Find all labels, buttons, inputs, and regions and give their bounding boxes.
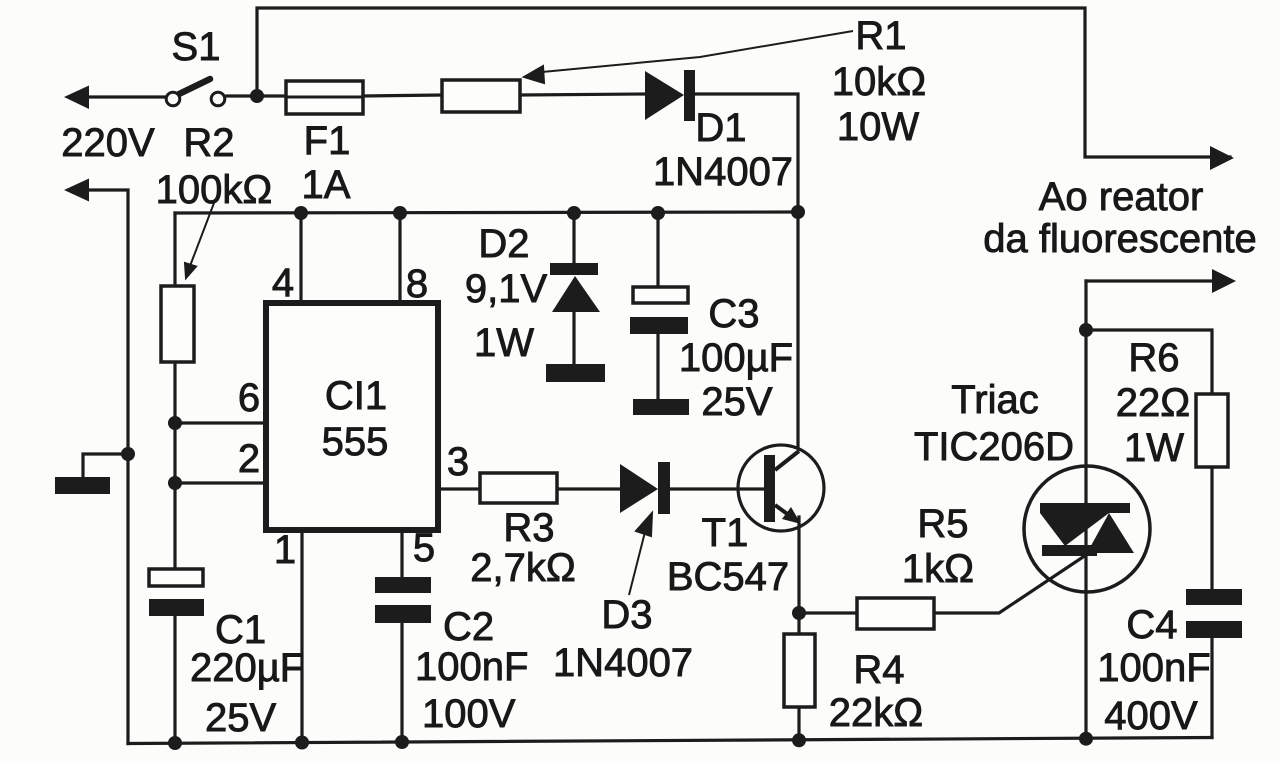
wire D2 branch: [572, 213, 575, 263]
svg-text:1kΩ: 1kΩ: [902, 547, 974, 591]
triac MT2 bar: [1040, 503, 1130, 513]
svg-text:1N4007: 1N4007: [553, 641, 693, 685]
wire pin2: [175, 481, 266, 484]
wire D3 to T1 base: [670, 487, 764, 490]
wire pin6: [175, 421, 266, 424]
svg-text:D3: D3: [601, 593, 652, 637]
wire R3 to D3: [557, 487, 620, 490]
svg-text:5: 5: [413, 526, 435, 570]
node bottom rail R4: [792, 733, 806, 747]
transistor T1 base bar: [764, 455, 775, 522]
node bus-D1: [791, 205, 805, 219]
svg-text:100nF: 100nF: [415, 645, 528, 689]
capacitor C2 plate bottom: [375, 605, 431, 623]
wire switch to fuse: [227, 94, 286, 97]
svg-text:6: 6: [238, 376, 260, 420]
triac right triangle: [1087, 513, 1134, 553]
terminal arrow mains 2: [64, 179, 89, 202]
svg-text:C3: C3: [708, 292, 759, 336]
svg-text:1W: 1W: [1124, 426, 1184, 470]
capacitor C3 end bar: [633, 399, 689, 415]
wire C2 to bottom rail: [400, 623, 403, 742]
svg-text:T1: T1: [702, 511, 749, 555]
wire bottom rail: [128, 738, 1212, 744]
wire R4 leads: [797, 613, 800, 634]
svg-text:Ao reator: Ao reator: [1039, 175, 1204, 219]
switch S1 lever: [179, 79, 210, 94]
wire V+ bus: [175, 212, 798, 213]
wire top rail: [257, 8, 1230, 157]
svg-text:400V: 400V: [1104, 694, 1198, 738]
triac circle: [1024, 466, 1150, 592]
svg-text:100V: 100V: [422, 692, 516, 736]
svg-text:C2: C2: [443, 605, 494, 649]
svg-text:R4: R4: [853, 648, 904, 692]
zener D2 cathode bar: [550, 263, 598, 275]
svg-text:22kΩ: 22kΩ: [829, 691, 923, 735]
svg-text:R6: R6: [1128, 336, 1179, 380]
svg-text:100µF: 100µF: [679, 336, 793, 380]
svg-text:1W: 1W: [474, 321, 534, 365]
node bottom rail C2: [395, 735, 409, 749]
svg-text:25V: 25V: [701, 380, 772, 424]
switch S1 contact circles: [166, 92, 180, 106]
svg-text:22Ω: 22Ω: [1116, 381, 1190, 425]
wire output 2 to arrow: [1086, 279, 1230, 282]
capacitor C2 plate top: [375, 577, 431, 593]
resistor R4: [784, 634, 815, 707]
wire R2 to C1: [173, 362, 176, 569]
diode D3: [620, 464, 658, 513]
resistor R6: [1196, 394, 1228, 467]
svg-text:D1: D1: [695, 106, 746, 150]
wire touch plate branch: [83, 454, 128, 477]
node switch-fuse junction: [250, 89, 264, 103]
wire R6 branch: [1086, 330, 1212, 394]
node bus-C3: [651, 206, 665, 220]
resistor R1: [442, 80, 520, 112]
resistor R2: [161, 286, 194, 362]
svg-text:10W: 10W: [837, 105, 919, 149]
capacitor C1 plate bottom: [149, 599, 204, 616]
wire pin8: [398, 213, 401, 303]
diode D1: [645, 71, 684, 120]
svg-text:220V: 220V: [61, 121, 155, 165]
wire pin4: [299, 213, 302, 303]
wire T1 emitter down to R5 node: [797, 517, 800, 613]
pointer arrow D3: [629, 513, 652, 595]
wire triac MT2 vertical: [1084, 281, 1087, 739]
capacitor C3 plate bottom: [630, 317, 688, 334]
node pin6 junction: [168, 416, 182, 430]
pointer arrow R1: [524, 31, 853, 83]
wire mains line to switch: [80, 95, 164, 98]
svg-text:CI1: CI1: [325, 374, 387, 418]
terminal arrow mains 1: [64, 86, 89, 110]
svg-text:D2: D2: [478, 222, 529, 266]
wire pin1: [300, 530, 303, 743]
svg-text:10kΩ: 10kΩ: [832, 60, 926, 104]
svg-text:BC547: BC547: [667, 555, 789, 599]
node left rail touch: [121, 447, 135, 461]
svg-text:1: 1: [274, 528, 296, 572]
triac MT1 bar: [1042, 545, 1097, 556]
svg-text:TIC206D: TIC206D: [914, 425, 1074, 469]
wire C1 to bottom rail: [173, 616, 176, 743]
svg-text:da fluorescente: da fluorescente: [983, 217, 1257, 261]
resistor R5: [857, 598, 934, 629]
wire D1 to right corner and down to bus: [696, 94, 798, 212]
pointer arrow R2: [185, 203, 214, 278]
wire collector vertical D1-bus-T1: [796, 212, 799, 448]
transistor T1 circle: [738, 445, 824, 531]
svg-text:8: 8: [406, 262, 428, 306]
node bus-pin8: [393, 206, 407, 220]
terminal arrow output 1: [1210, 146, 1234, 170]
touch plate: [55, 477, 110, 494]
svg-text:1N4007: 1N4007: [653, 150, 793, 194]
svg-text:2: 2: [238, 437, 260, 481]
svg-text:1A: 1A: [302, 163, 351, 207]
wire pin3 to R3: [438, 487, 480, 490]
wire R1 to D1: [520, 94, 645, 95]
svg-text:R1: R1: [855, 14, 906, 58]
wire node to R5: [799, 611, 857, 614]
svg-text:Triac: Triac: [951, 378, 1038, 422]
node bus-pin4: [294, 206, 308, 220]
IC CI1 555 box: [266, 303, 438, 530]
svg-text:555: 555: [322, 420, 389, 464]
svg-text:R5: R5: [917, 502, 968, 546]
wire pin5 to C2: [400, 530, 403, 577]
terminal arrow output 2: [1212, 269, 1236, 293]
svg-text:220µF: 220µF: [190, 646, 304, 690]
fuse F1: [286, 81, 363, 114]
wire R2 branch vertical: [173, 213, 176, 286]
svg-text:25V: 25V: [205, 696, 276, 740]
svg-text:2,7kΩ: 2,7kΩ: [470, 546, 576, 590]
wire second mains line left rail: [80, 190, 128, 744]
wire C4 to bottom rail: [1210, 637, 1213, 738]
svg-text:4: 4: [272, 261, 294, 305]
node bottom rail pin1: [295, 736, 309, 750]
svg-text:3: 3: [447, 440, 469, 484]
node output2-R6 junction: [1079, 323, 1093, 337]
capacitor C3 plate top: [633, 287, 688, 303]
svg-text:R2: R2: [183, 121, 234, 165]
node bus-D2: [567, 206, 581, 220]
transistor T1 emitter lead: [775, 505, 790, 516]
node emitter-R5-R4: [792, 606, 806, 620]
svg-text:9,1V: 9,1V: [465, 267, 548, 311]
wire fuse to R1: [363, 95, 442, 96]
triac left triangle: [1040, 513, 1109, 546]
zener D2 triangle: [552, 276, 600, 312]
transistor T1 emitter arrowhead: [782, 507, 801, 524]
wire R6 to C4: [1210, 467, 1213, 590]
node pin2 junction: [168, 476, 182, 490]
wire C3 lower lead: [656, 334, 659, 399]
resistor R3: [480, 473, 557, 503]
wire D2 anode lead: [572, 312, 575, 365]
node bottom rail triac: [1079, 732, 1093, 746]
zener D2 end bar: [546, 364, 605, 382]
wire C3 branch: [656, 213, 659, 287]
svg-text:S1: S1: [172, 25, 221, 69]
transistor T1 collector lead: [775, 451, 799, 470]
node bottom rail C1: [168, 736, 182, 750]
capacitor C4 plate bottom: [1186, 621, 1242, 638]
svg-text:C4: C4: [1126, 603, 1177, 647]
svg-text:F1: F1: [304, 119, 351, 163]
wire R5 to gate diagonal: [934, 553, 1089, 613]
svg-text:100nF: 100nF: [1097, 646, 1210, 690]
capacitor C4 plate top: [1186, 589, 1242, 605]
svg-text:R3: R3: [503, 506, 554, 550]
capacitor C1 plate top: [149, 569, 203, 586]
